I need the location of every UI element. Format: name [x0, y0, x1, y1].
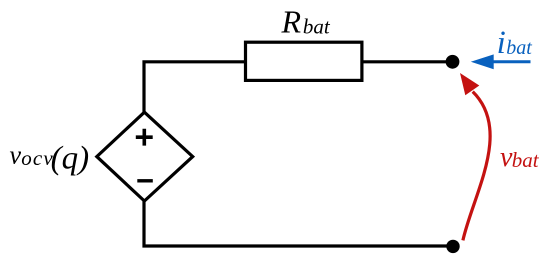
- svg-text:vbat: vbat: [500, 142, 540, 173]
- node top terminal: [446, 55, 460, 69]
- dependent voltage source U1 (diamond): [97, 112, 193, 201]
- svg-text:v: v: [10, 141, 22, 170]
- svg-text:Rbat: Rbat: [281, 4, 331, 40]
- voltage arrow v_bat (red arc): [463, 92, 490, 241]
- wire top-right: resistor to top terminal: [362, 60, 453, 63]
- wire bottom: source to bottom terminal: [144, 199, 453, 246]
- resistor R1 body: [246, 42, 362, 80]
- plus sign: [136, 129, 153, 146]
- current arrow i_bat (blue): [493, 60, 531, 63]
- wire top-left: resistor to corner to source: [144, 62, 246, 114]
- node bottom terminal: [446, 240, 459, 253]
- minus sign: [137, 179, 153, 182]
- svg-text:(q): (q): [51, 140, 89, 176]
- svg-text:ocv: ocv: [21, 146, 54, 170]
- svg-text:ibat: ibat: [497, 25, 533, 61]
